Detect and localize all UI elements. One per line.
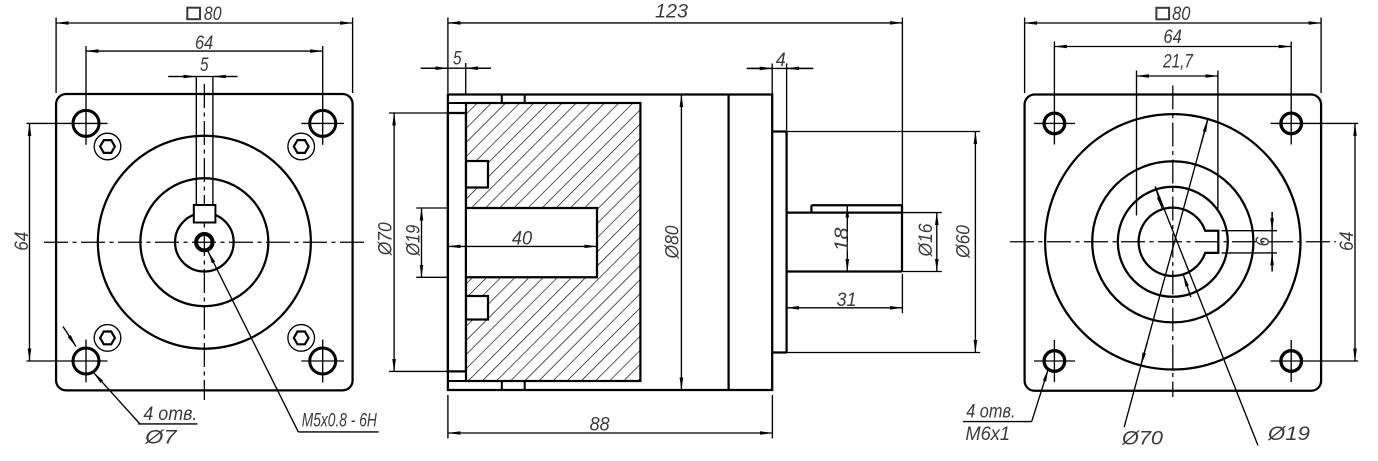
svg-text:5: 5	[453, 49, 462, 70]
svg-text:6: 6	[1253, 236, 1274, 246]
svg-text:Ø60: Ø60	[954, 225, 975, 259]
svg-text:M6x1: M6x1	[965, 424, 1010, 445]
svg-text:Ø19: Ø19	[403, 224, 424, 256]
svg-text:Ø80: Ø80	[663, 225, 684, 259]
svg-text:88: 88	[590, 414, 610, 435]
svg-text:4: 4	[776, 50, 786, 71]
svg-text:64: 64	[12, 232, 33, 251]
svg-text:4 отв.: 4 отв.	[966, 402, 1015, 423]
svg-text:18: 18	[832, 227, 853, 251]
svg-text:4 отв.: 4 отв.	[143, 404, 197, 425]
svg-text:Ø16: Ø16	[916, 223, 937, 257]
svg-text:64: 64	[1163, 27, 1182, 48]
svg-text:21,7: 21,7	[1162, 51, 1194, 72]
svg-text:5: 5	[200, 55, 209, 76]
svg-text:80: 80	[204, 4, 222, 25]
svg-text:Ø70: Ø70	[1121, 428, 1164, 449]
svg-text:M5x0.8 - 6H: M5x0.8 - 6H	[302, 411, 377, 432]
svg-text:123: 123	[655, 2, 688, 23]
svg-text:80: 80	[1172, 4, 1191, 25]
svg-text:64: 64	[1337, 231, 1358, 251]
svg-text:Ø19: Ø19	[1267, 424, 1311, 445]
svg-text:Ø70: Ø70	[376, 222, 397, 256]
svg-text:40: 40	[512, 228, 533, 249]
svg-text:64: 64	[195, 33, 213, 54]
svg-text:31: 31	[837, 290, 857, 311]
svg-text:Ø7: Ø7	[144, 427, 178, 448]
